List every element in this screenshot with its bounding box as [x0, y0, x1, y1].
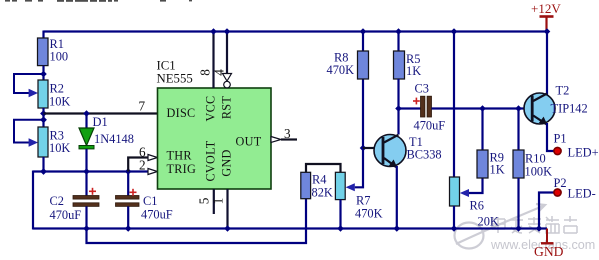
wire R6 bottom: [453, 206, 455, 229]
node R5 on rail: [395, 28, 402, 35]
node P2 branch on ground row: [536, 225, 543, 232]
pin 3 output arrow: [271, 137, 281, 143]
svg-text:100K: 100K: [525, 165, 553, 179]
wire T2 collector from rail: [546, 32, 548, 96]
wire pin 1 GND: [226, 189, 228, 229]
wire R6 column from rail: [453, 32, 455, 178]
wire main ground row: [33, 227, 547, 229]
svg-text:R10: R10: [525, 152, 546, 166]
wire T1 emitter to ground: [396, 166, 398, 229]
svg-text:OUT: OUT: [236, 135, 262, 149]
wire T1 base: [363, 147, 375, 149]
wire pin 7 DISC: [44, 112, 158, 114]
wire R1 bottom to R2 top: [42, 66, 44, 80]
resistor R10: [513, 109, 552, 229]
+12V power symbol: [531, 1, 561, 32]
svg-text:+12V: +12V: [531, 1, 561, 16]
svg-text:1K: 1K: [490, 163, 505, 177]
node pin4 on rail: [224, 28, 231, 35]
svg-text:P2: P2: [554, 176, 567, 190]
svg-text:82K: 82K: [312, 186, 333, 200]
node DISC junction: [40, 110, 47, 117]
wire R6 wiper to R9 bottom: [469, 178, 483, 193]
svg-text:GND: GND: [220, 149, 234, 176]
pin 4 input arrow: [223, 74, 232, 82]
node D1 anode on DISC wire: [83, 110, 90, 117]
node R6 column on rail: [451, 28, 458, 35]
svg-text:THR: THR: [167, 149, 193, 163]
node R3 bottom junction: [40, 168, 47, 175]
svg-text:R2: R2: [50, 82, 64, 96]
svg-text:470uF: 470uF: [414, 119, 446, 133]
wire R7 bottom: [339, 200, 341, 229]
node C2 bottom: [83, 225, 90, 232]
resistor R9: [477, 109, 505, 179]
svg-text:T2: T2: [556, 84, 570, 98]
wire pin 3 OUT stub: [281, 138, 297, 140]
node R10 top junction: [515, 105, 522, 112]
wire R3 bottom: [42, 157, 44, 172]
wire R2 wiper loop: [14, 74, 44, 93]
svg-text:LED-: LED-: [568, 187, 596, 201]
svg-text:470K: 470K: [355, 207, 383, 221]
pin 4 inversion bubble: [224, 81, 231, 88]
svg-text:R4: R4: [312, 173, 326, 187]
capacitor C1: [116, 172, 173, 229]
svg-text:1K: 1K: [406, 64, 421, 78]
wire C3 to T2 base row: [432, 107, 525, 109]
resistor R4: [301, 172, 333, 199]
node R5/C3/collector junction: [395, 105, 402, 112]
svg-text:1N4148: 1N4148: [94, 132, 134, 146]
transistor Q1 T1 BC338: [374, 135, 442, 169]
R7 wiper arrow: [346, 183, 355, 191]
node R8 on rail: [360, 28, 367, 35]
potentiometer R3: [38, 127, 70, 157]
svg-text:470uF: 470uF: [50, 208, 82, 222]
svg-text:TRIG: TRIG: [167, 162, 197, 176]
node pin8 on rail: [210, 28, 217, 35]
capacitor C2: [50, 172, 100, 229]
svg-text:DISC: DISC: [167, 106, 196, 120]
svg-text:BC338: BC338: [407, 148, 442, 162]
svg-text:LED+: LED+: [568, 146, 599, 160]
connector P2 LED-: [554, 176, 596, 201]
potentiometer R2: [38, 80, 70, 109]
wire R1 top stub: [42, 31, 44, 39]
svg-text:D1: D1: [93, 115, 108, 129]
svg-text:VCC: VCC: [204, 96, 218, 122]
svg-text:TIP142: TIP142: [551, 102, 588, 116]
ground symbol: [534, 229, 564, 260]
svg-text:NE555: NE555: [157, 72, 193, 86]
wire lower ground detour to R4: [87, 199, 307, 243]
node R9 top junction: [479, 105, 486, 112]
svg-text:7: 7: [139, 99, 146, 114]
potentiometer R7: [335, 172, 382, 220]
node R3 wiper junction: [40, 116, 47, 123]
wire R4/R7 top row: [306, 164, 341, 172]
wire pin 4 RST: [226, 32, 228, 75]
wire TRIG/THR row: [33, 170, 149, 172]
wire pin 8 VCC: [212, 32, 214, 89]
svg-text:470uF: 470uF: [141, 208, 173, 222]
svg-text:RST: RST: [220, 96, 234, 120]
node C1 bottom: [125, 225, 132, 232]
svg-text:5: 5: [197, 197, 212, 204]
svg-text:R7: R7: [356, 194, 370, 208]
wire left bypass to ground row: [32, 171, 34, 230]
pin 2 input arrow: [148, 169, 158, 175]
pin 6 input arrow: [148, 155, 158, 161]
wire P2 to ground row: [539, 193, 554, 229]
svg-text:C2: C2: [50, 194, 64, 208]
node R10 bottom on ground row: [515, 225, 522, 232]
node pin1 on ground row: [224, 225, 231, 232]
R3 wiper arrow: [29, 138, 38, 147]
wire R2 bottom to R3 top: [42, 108, 44, 127]
svg-text:3: 3: [284, 126, 291, 141]
svg-text:8: 8: [198, 69, 213, 76]
svg-text:470K: 470K: [327, 63, 355, 77]
node D1 cathode junction: [83, 168, 90, 175]
svg-text:C3: C3: [415, 82, 429, 96]
svg-text:C1: C1: [143, 194, 157, 208]
wire T2 emitter to P1: [547, 123, 554, 151]
R2 wiper arrow: [29, 89, 38, 98]
node R6 bottom on ground row: [451, 225, 458, 232]
node R1/R2 junction: [40, 71, 47, 78]
wire top +12V rail: [44, 30, 548, 32]
diode D1 with anode wire: [79, 114, 134, 172]
svg-text:P1: P1: [554, 132, 567, 146]
resistor R8: [327, 32, 369, 80]
op-amp U1 555 chip body IC1: [157, 59, 272, 190]
connector P1 LED+: [554, 132, 599, 160]
node +12V rail end: [544, 28, 551, 35]
capacitor C3: [399, 82, 446, 133]
transistor Q2 T2 TIP142: [524, 84, 588, 126]
svg-text:R6: R6: [470, 199, 484, 213]
node T1 emitter on ground row: [394, 225, 401, 232]
svg-text:1: 1: [211, 198, 226, 205]
svg-text:GND: GND: [534, 244, 564, 259]
node R7 bottom on ground row: [337, 225, 344, 232]
svg-text:IC1: IC1: [157, 59, 176, 73]
svg-text:20K: 20K: [478, 215, 499, 229]
cropped caption text fragments at top edge: [5, 0, 192, 2]
resistor R1: [38, 37, 69, 66]
svg-text:10K: 10K: [49, 95, 70, 109]
svg-text:100: 100: [50, 50, 69, 64]
svg-text:2: 2: [139, 158, 146, 173]
R6 wiper arrow: [460, 189, 469, 197]
wire R3 wiper loop: [14, 120, 44, 143]
wire pin 5 CVOLT stub: [213, 189, 215, 214]
watermark chinese characters: [492, 216, 577, 233]
potentiometer R6: [450, 177, 499, 229]
wire pin 6 THR elbow: [128, 158, 148, 172]
svg-text:10K: 10K: [49, 141, 70, 155]
resistor R5: [394, 32, 422, 135]
node C1/pin6 junction: [125, 168, 132, 175]
wire R7 wiper to base column: [355, 79, 363, 187]
svg-text:CVOLT: CVOLT: [204, 140, 218, 181]
watermark logo: [455, 204, 546, 249]
node T1 base junction: [360, 145, 367, 152]
